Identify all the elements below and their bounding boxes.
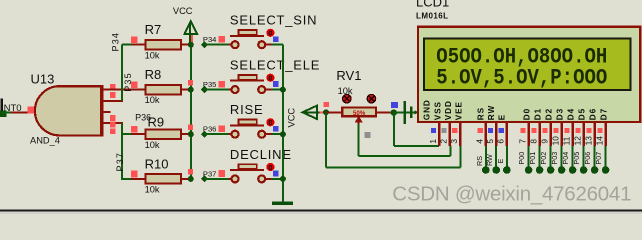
wire button RISE to rail bbox=[265, 133, 283, 135]
svg-text:D4: D4 bbox=[567, 108, 576, 120]
svg-text:SELECT_SIN: SELECT_SIN bbox=[230, 13, 317, 28]
LCD pin 14 D7 bbox=[594, 108, 608, 146]
svg-text:LCD1: LCD1 bbox=[416, 0, 449, 9]
button DECLINE bbox=[230, 164, 265, 182]
ground symbol at LCD GND bbox=[404, 101, 419, 124]
wire P37 vertical from R10 to gate bbox=[121, 134, 133, 179]
node pot-right junction bbox=[391, 109, 397, 115]
svg-text:P04: P04 bbox=[561, 152, 570, 165]
pin marker RV1 left bbox=[323, 102, 329, 107]
svg-text:13: 13 bbox=[583, 136, 593, 146]
svg-text:10k: 10k bbox=[145, 140, 160, 150]
svg-text:P00: P00 bbox=[517, 152, 526, 165]
wire VEE net from pot left bbox=[326, 112, 460, 167]
svg-text:12: 12 bbox=[572, 136, 582, 146]
button SELECT_ELE bbox=[230, 75, 265, 93]
svg-text:D5: D5 bbox=[578, 108, 587, 120]
svg-text:P06: P06 bbox=[583, 152, 592, 165]
gate input stubs bbox=[103, 90, 131, 124]
svg-text:10k: 10k bbox=[145, 185, 160, 195]
LCD pin 11 D4 bbox=[561, 108, 575, 146]
svg-text:E: E bbox=[497, 114, 506, 120]
node P36 wire dot bbox=[201, 131, 232, 138]
svg-text:VEE: VEE bbox=[455, 101, 464, 120]
button RISE state indicator bbox=[266, 118, 278, 132]
wire P01 with terminal dot bbox=[528, 146, 543, 174]
svg-text:RISE: RISE bbox=[230, 102, 264, 117]
svg-text:CSDN @weixin_47626041: CSDN @weixin_47626041 bbox=[392, 183, 631, 206]
wire P34 vertical from R7 to gate bbox=[122, 45, 133, 101]
LCD pin 3 VEE bbox=[449, 101, 463, 146]
pin marker after P34 bbox=[218, 36, 224, 43]
wire INT0 to gate output bbox=[2, 112, 35, 114]
svg-text:D3: D3 bbox=[556, 108, 565, 120]
svg-text:GND: GND bbox=[422, 99, 431, 120]
svg-text:LM016L: LM016L bbox=[416, 11, 449, 20]
ground symbol below buttons bbox=[272, 201, 293, 205]
wire P03 with terminal dot bbox=[550, 146, 565, 174]
wire VDD net from wiper bbox=[359, 124, 451, 156]
svg-text:R8: R8 bbox=[145, 67, 162, 82]
LCD pin 6 E bbox=[496, 114, 507, 146]
svg-text:P34: P34 bbox=[110, 32, 120, 52]
svg-text:E: E bbox=[496, 159, 505, 164]
LCD pin 4 RS bbox=[475, 107, 486, 146]
wire VCC rail vertical bbox=[190, 45, 192, 179]
terminal INT0 bbox=[0, 99, 22, 118]
svg-text:0: 0 bbox=[268, 74, 272, 83]
junction dots on VCC rail bbox=[188, 42, 194, 182]
svg-text:U13: U13 bbox=[31, 72, 55, 87]
power VCC left-pointing arrow bbox=[303, 106, 327, 119]
wire button right rail bbox=[282, 45, 284, 202]
pin marker after P35 bbox=[218, 81, 224, 88]
svg-text:10k: 10k bbox=[338, 86, 353, 96]
wire P05 with terminal dot bbox=[572, 146, 587, 174]
svg-text:P01: P01 bbox=[528, 152, 537, 165]
svg-text:9: 9 bbox=[539, 139, 549, 144]
power VCC arrow symbol bbox=[185, 21, 197, 44]
svg-text:AND_4: AND_4 bbox=[30, 136, 60, 146]
svg-text:RW: RW bbox=[485, 154, 494, 166]
gate pin markers bbox=[110, 84, 116, 134]
pin marker on INT0 wire bbox=[28, 106, 35, 113]
svg-text:11: 11 bbox=[561, 136, 571, 145]
LCD pin 9 D2 bbox=[539, 108, 553, 146]
svg-text:5: 5 bbox=[485, 139, 495, 144]
op-amp U13 AND_4 gate body bbox=[35, 85, 102, 136]
LCD pin 13 D6 bbox=[583, 108, 597, 146]
LCD pin 2 VDD bbox=[439, 100, 453, 146]
bottom window edge bbox=[0, 209, 642, 214]
svg-text:P07: P07 bbox=[594, 152, 603, 165]
resistor R7 bbox=[131, 37, 191, 50]
svg-text:1: 1 bbox=[428, 139, 438, 144]
svg-text:R10: R10 bbox=[145, 156, 169, 171]
LCD LCD1 body bbox=[418, 27, 640, 122]
wire P04 with terminal dot bbox=[561, 146, 576, 174]
junction dots on button rail bbox=[280, 87, 286, 182]
wire P36 from R9 to gate bbox=[121, 123, 133, 134]
wire P06 with terminal dot bbox=[583, 146, 598, 174]
button SELECT_ELE state indicator bbox=[266, 74, 278, 88]
button RISE bbox=[230, 120, 265, 138]
wire P35 from R8 to gate pin bbox=[131, 89, 133, 91]
RV1 wiper grip bbox=[365, 132, 371, 138]
svg-text:R7: R7 bbox=[145, 22, 162, 37]
svg-text:0: 0 bbox=[268, 163, 272, 172]
pin marker after P36 bbox=[218, 125, 224, 132]
wire P07 with terminal dot bbox=[594, 146, 609, 174]
svg-text:SELECT_ELE: SELECT_ELE bbox=[230, 58, 320, 73]
svg-text:P34: P34 bbox=[203, 35, 217, 44]
svg-text:D6: D6 bbox=[589, 108, 598, 120]
LCD pin 12 D5 bbox=[572, 108, 586, 146]
potentiometer RV1 bbox=[323, 108, 394, 125]
svg-text:D1: D1 bbox=[534, 108, 543, 120]
svg-text:P02: P02 bbox=[539, 152, 548, 165]
node P35 wire dot bbox=[201, 86, 232, 93]
svg-text:D7: D7 bbox=[600, 108, 609, 120]
svg-text:VSS: VSS bbox=[433, 101, 442, 120]
svg-text:10k: 10k bbox=[145, 95, 160, 105]
button SELECT_SIN state indicator bbox=[266, 29, 278, 43]
svg-text:P35: P35 bbox=[203, 80, 217, 89]
node P34 wire dot bbox=[201, 41, 232, 48]
svg-text:6: 6 bbox=[496, 139, 506, 144]
svg-text:D2: D2 bbox=[545, 108, 554, 120]
wire pot to LCD GND pin bbox=[394, 111, 419, 113]
svg-text:2: 2 bbox=[439, 139, 449, 144]
wire button SELECT_ELE to rail bbox=[265, 89, 283, 91]
wire P00 with terminal dot bbox=[517, 146, 532, 174]
LCD screen bbox=[424, 39, 631, 90]
wire E with terminal dot bbox=[496, 146, 511, 174]
wire P02 with terminal dot bbox=[539, 146, 554, 174]
svg-text:8: 8 bbox=[528, 139, 538, 144]
pin marker after P37 bbox=[218, 170, 224, 177]
svg-text:R9: R9 bbox=[148, 115, 165, 130]
svg-text:P36: P36 bbox=[203, 125, 217, 134]
resistor R9 bbox=[131, 126, 191, 139]
wire VSS net bbox=[394, 113, 439, 147]
svg-text:50%: 50% bbox=[353, 110, 366, 117]
button SELECT_SIN bbox=[230, 30, 265, 48]
svg-text:RS: RS bbox=[475, 156, 484, 166]
LCD pin 1 VSS bbox=[428, 101, 442, 146]
LCD pin 5 RW bbox=[485, 105, 496, 146]
resistor R8 bbox=[131, 81, 191, 94]
wire RW with terminal dot bbox=[485, 146, 500, 174]
svg-text:4: 4 bbox=[475, 139, 485, 144]
wire RS with terminal dot bbox=[475, 146, 490, 174]
svg-text:VCC: VCC bbox=[173, 6, 193, 16]
svg-text:P37: P37 bbox=[115, 152, 125, 172]
svg-text:RV1: RV1 bbox=[336, 68, 361, 83]
LCD pin 10 D3 bbox=[550, 108, 564, 146]
svg-text:RS: RS bbox=[476, 107, 485, 120]
svg-text:P37: P37 bbox=[203, 169, 217, 178]
wire button DECLINE to rail bbox=[265, 178, 283, 180]
svg-text:D0: D0 bbox=[523, 108, 532, 120]
wire button SELECT_SIN to rail bbox=[265, 44, 283, 46]
svg-text:P05: P05 bbox=[572, 152, 581, 165]
pin marker RV1 right blue bbox=[391, 102, 398, 108]
RV1 adjust buttons bbox=[343, 94, 376, 103]
svg-text:14: 14 bbox=[594, 136, 604, 146]
resistor R10 bbox=[131, 171, 191, 184]
svg-text:0: 0 bbox=[268, 118, 272, 127]
LCD pin 7 D0 bbox=[517, 108, 531, 146]
LCD pin 8 D1 bbox=[528, 108, 542, 146]
svg-text:VCC: VCC bbox=[287, 108, 297, 128]
svg-text:P03: P03 bbox=[550, 152, 559, 165]
svg-text:0: 0 bbox=[268, 29, 272, 38]
svg-text:5.OV,5.OV,P:OOO: 5.OV,5.OV,P:OOO bbox=[436, 66, 607, 91]
node P37 wire dot bbox=[201, 175, 232, 182]
svg-text:VDD: VDD bbox=[444, 100, 453, 120]
svg-text:3: 3 bbox=[449, 139, 459, 144]
svg-text:10: 10 bbox=[550, 136, 560, 146]
svg-text:10k: 10k bbox=[145, 50, 160, 60]
svg-text:7: 7 bbox=[517, 139, 527, 144]
button DECLINE state indicator bbox=[266, 163, 278, 177]
svg-text:RW: RW bbox=[487, 105, 496, 120]
